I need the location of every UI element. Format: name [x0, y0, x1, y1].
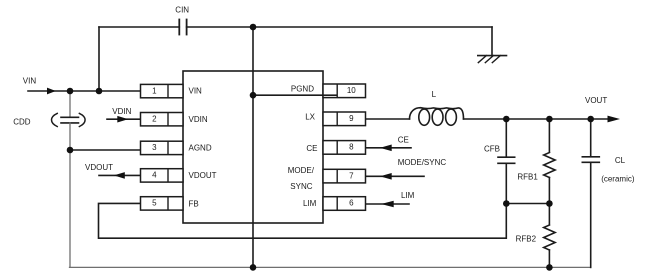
svg-text:2: 2	[152, 115, 157, 124]
svg-text:4: 4	[152, 171, 157, 180]
svg-text:CE: CE	[398, 135, 409, 144]
svg-text:6: 6	[349, 199, 354, 208]
svg-text:VDOUT: VDOUT	[189, 171, 217, 180]
svg-text:LIM: LIM	[401, 191, 415, 200]
svg-text:1: 1	[152, 86, 157, 95]
svg-text:RFB2: RFB2	[516, 235, 537, 244]
svg-text:VDOUT: VDOUT	[85, 163, 113, 172]
svg-text:VDIN: VDIN	[112, 107, 131, 116]
svg-text:CE: CE	[306, 144, 317, 153]
svg-text:CDD: CDD	[13, 117, 31, 126]
svg-text:LIM: LIM	[303, 199, 317, 208]
svg-text:SYNC: SYNC	[290, 182, 312, 191]
svg-text:MODE/: MODE/	[288, 166, 315, 175]
svg-text:(ceramic): (ceramic)	[601, 175, 635, 184]
svg-text:MODE/SYNC: MODE/SYNC	[398, 158, 447, 167]
svg-text:RFB1: RFB1	[517, 172, 538, 181]
svg-text:8: 8	[349, 143, 354, 152]
svg-text:VIN: VIN	[189, 87, 203, 96]
svg-text:CFB: CFB	[484, 145, 500, 154]
svg-text:10: 10	[347, 86, 356, 95]
svg-text:9: 9	[349, 114, 354, 123]
svg-text:LX: LX	[305, 113, 315, 122]
svg-text:CIN: CIN	[175, 6, 189, 15]
svg-text:VDIN: VDIN	[189, 115, 208, 124]
svg-text:L: L	[432, 90, 437, 99]
svg-text:7: 7	[349, 171, 354, 180]
svg-text:AGND: AGND	[189, 144, 212, 153]
svg-text:5: 5	[152, 199, 157, 208]
svg-text:3: 3	[152, 143, 157, 152]
svg-text:PGND: PGND	[291, 85, 314, 94]
svg-text:VOUT: VOUT	[585, 96, 607, 105]
svg-text:VIN: VIN	[23, 77, 37, 86]
svg-text:CL: CL	[615, 156, 626, 165]
svg-text:FB: FB	[189, 199, 199, 208]
